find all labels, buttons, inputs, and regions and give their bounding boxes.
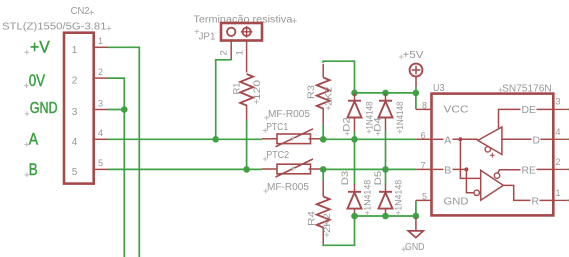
receiver U3.R (triangle) [481, 170, 504, 200]
svg-text:3: 3 [72, 107, 78, 118]
IC U3 body [432, 94, 554, 216]
U3 pin 3 stub [553, 108, 567, 110]
+5V supply symbol [410, 64, 423, 77]
svg-text:2: 2 [218, 50, 229, 55]
svg-text:SN75176N: SN75176N [502, 83, 552, 94]
R4 upper lead [322, 181, 324, 197]
svg-text:2K2: 2K2 [324, 87, 335, 106]
svg-text:3: 3 [556, 97, 561, 107]
wire 0V net (pin 2 down) [108, 78, 124, 257]
U3 wire D pin [541, 138, 553, 140]
svg-text:GND: GND [30, 100, 58, 117]
PTC fuse PTC2 (MF-R005) [262, 168, 277, 170]
JP1 pad 1 circle with cross [242, 28, 250, 36]
wire R1 to net B [246, 120, 248, 169]
svg-text:5: 5 [72, 167, 78, 178]
U3 internal B line [433, 168, 444, 170]
receiver enable bubble [494, 173, 499, 178]
diode D5 (1N4148) [385, 184, 387, 192]
U3 pin 6 stub [416, 138, 431, 140]
PTC fuse PTC1 (MF-R005) [262, 138, 277, 140]
CN2 pin 2 stub [94, 77, 109, 79]
svg-text:B: B [29, 161, 38, 179]
junction +5V/pin8 [413, 90, 420, 97]
svg-text:1: 1 [234, 50, 245, 55]
svg-text:3: 3 [98, 98, 103, 108]
svg-text:R: R [532, 195, 540, 207]
diode D4 (1N4148) [385, 93, 387, 101]
svg-text:1: 1 [72, 45, 78, 56]
wire at pin 4 (edge) [567, 138, 569, 140]
R1 lower lead [246, 105, 248, 121]
svg-text:A: A [29, 130, 38, 148]
wire at pin 3 (edge) [567, 108, 569, 110]
wire at pin 2 (edge) [567, 168, 569, 170]
svg-text:D4: D4 [373, 117, 384, 132]
svg-text:PTC1: PTC1 [266, 122, 288, 133]
svg-text:R3: R3 [306, 85, 317, 99]
wire net A to D3 (crosses net B) [354, 139, 356, 184]
jumper JP1 body [221, 23, 262, 41]
U3 wire D to driver [502, 138, 532, 140]
wire GND rail [355, 215, 416, 217]
wire GND pin 3 to 0V net [108, 109, 124, 111]
U3 wire receiver output to R [503, 185, 530, 200]
svg-text:MF-R005: MF-R005 [268, 109, 310, 120]
U3 pin 7 stub [416, 168, 431, 170]
svg-text:2K2: 2K2 [322, 213, 333, 233]
junction R3 on net A [320, 136, 327, 143]
U3 wire RE pin [537, 168, 553, 170]
svg-text:U3: U3 [433, 83, 445, 94]
wire JP1 pin2 to net A [216, 60, 232, 140]
junction GND rail/pin5 [413, 213, 420, 220]
wire net B to D5 [385, 169, 387, 184]
JP1 pad 2 circle [227, 28, 235, 36]
U3 wire B to receiver - input [466, 169, 473, 192]
driver plus mark [490, 153, 495, 158]
svg-text:MF-R005: MF-R005 [267, 182, 309, 193]
svg-text:A: A [444, 134, 451, 146]
svg-text:1: 1 [98, 36, 103, 46]
svg-text:2: 2 [72, 76, 78, 87]
U3 internal node B junction [464, 167, 468, 171]
diode D3 (1N4148) [354, 184, 356, 192]
svg-text:+V: +V [30, 38, 50, 56]
wire net A (right segment) [321, 138, 417, 140]
CN2 pin 4 stub [94, 138, 109, 140]
svg-text:0V: 0V [29, 72, 45, 90]
U3 pin 4 stub [553, 138, 567, 140]
JP1 pin 2 lead [230, 41, 232, 61]
wire R4 to GND rail [323, 216, 354, 245]
svg-text:7: 7 [421, 160, 426, 170]
wire R3 to net A [322, 125, 324, 140]
svg-text:GND: GND [405, 242, 425, 253]
svg-text:6: 6 [421, 130, 426, 140]
junction +5V/D4 [382, 90, 389, 97]
svg-text:RE: RE [522, 165, 537, 177]
wire R3 top to +5V rail [323, 61, 354, 93]
svg-text:+5V: +5V [403, 50, 424, 61]
wire net B to R4 [322, 169, 324, 181]
GND symbol lead [415, 217, 417, 231]
resistor R4 [317, 197, 330, 228]
svg-text:4: 4 [556, 127, 561, 137]
resistor R1 [240, 74, 253, 106]
receiver input bubble [474, 190, 479, 195]
U3 wire DE to driver [499, 109, 521, 128]
svg-text:GND: GND [444, 195, 469, 207]
R3 upper lead [322, 64, 324, 78]
svg-text:R1: R1 [232, 83, 243, 95]
CN2 pin 5 stub [94, 168, 109, 170]
wire net B (right segment) [321, 168, 417, 170]
U3 wire R pin [540, 199, 553, 201]
svg-text:JP1: JP1 [199, 32, 216, 43]
U3 internal node A junction [458, 137, 462, 141]
wire +5V symbol to rail [415, 87, 417, 93]
junction GND/D5 [382, 213, 389, 220]
connector CN2 body [64, 33, 94, 184]
svg-text:STL(Z)1550/5G-3.81: STL(Z)1550/5G-3.81 [2, 22, 107, 33]
junction D2/D3 on net A [351, 136, 358, 143]
U3 wire RE to receiver [498, 170, 521, 173]
ground symbol [408, 231, 423, 238]
wire +5V rail [355, 92, 416, 94]
junction D4/D5 on net B [382, 166, 389, 173]
driver U3.D (triangle) [478, 127, 502, 155]
JP1 pin 1 lead [246, 41, 248, 73]
svg-text:4: 4 [98, 128, 103, 138]
svg-text:120: 120 [252, 80, 263, 100]
junction R1 on net B [243, 166, 250, 173]
U3 internal A line [433, 138, 444, 140]
svg-text:5: 5 [98, 158, 103, 168]
U3 pin 1 stub [553, 199, 567, 201]
CN2 pin 1 stub [94, 46, 109, 48]
svg-text:1: 1 [556, 188, 561, 198]
svg-text:D3: D3 [340, 171, 351, 186]
R4 lower lead [322, 227, 324, 245]
wire D2 to net A [354, 131, 356, 139]
U3 pin 8 stub [416, 108, 432, 110]
U3 pin 2 stub [553, 168, 567, 170]
svg-text:1N4148: 1N4148 [395, 102, 406, 130]
junction GND/D3 [351, 213, 358, 220]
R3 lower lead [322, 108, 324, 125]
wire at pin 1 (edge) [567, 199, 569, 201]
svg-text:8: 8 [422, 100, 427, 110]
wire D4 to net B (crosses net A) [385, 131, 387, 169]
svg-text:2: 2 [556, 157, 561, 167]
wire net B (left segment) [108, 168, 262, 170]
svg-text:VCC: VCC [444, 104, 469, 116]
svg-text:D: D [533, 134, 541, 146]
wire GND rail to pin 5 [415, 200, 417, 216]
junction 0V/GND [121, 106, 128, 113]
svg-text:CN2: CN2 [71, 6, 90, 17]
U3 pin 5 stub [416, 199, 432, 201]
svg-text:D2: D2 [342, 117, 353, 132]
svg-text:5: 5 [422, 191, 427, 201]
svg-text:2: 2 [98, 67, 103, 77]
junction JP1 branch on net A [212, 136, 219, 143]
wire +5V to pin 8 [415, 93, 417, 110]
svg-text:PTC2: PTC2 [266, 150, 289, 161]
CN2 pin 3 stub [94, 109, 109, 111]
svg-text:R4: R4 [306, 211, 317, 226]
driver inverting bubble [485, 147, 490, 152]
wire net A (left segment) [108, 138, 262, 140]
svg-text:4: 4 [72, 137, 78, 148]
svg-text:1N4148: 1N4148 [394, 180, 405, 211]
svg-text:DE: DE [522, 104, 537, 116]
svg-text:B: B [444, 165, 451, 177]
junction R4 on net B [320, 166, 327, 173]
wire +V net (pin 1 down) [108, 47, 139, 257]
U3 wire A to receiver + input [460, 139, 480, 178]
diode D2 (1N4148) [354, 93, 356, 101]
svg-text:D5: D5 [373, 171, 384, 186]
U3 wire DE pin [537, 108, 553, 110]
svg-text:1N4148: 1N4148 [363, 180, 374, 211]
resistor R3 [317, 78, 330, 109]
junction +5V/D2 [351, 90, 358, 97]
